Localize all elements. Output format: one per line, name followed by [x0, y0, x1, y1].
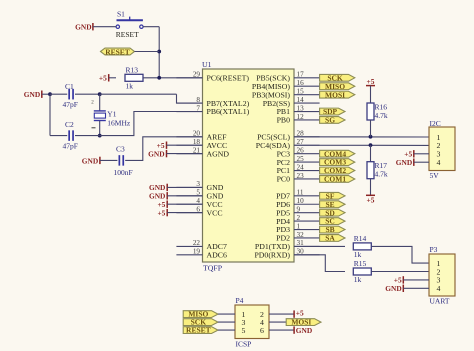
wire GND to C1 node [42, 93, 50, 95]
svg-text:47pF: 47pF [63, 142, 78, 151]
wire R17 to +5 bar [370, 179, 372, 196]
wire R15 to P3 pin 2 [371, 271, 429, 273]
U1 pin 11 PD7 [294, 195, 320, 197]
svg-text:ADC6: ADC6 [207, 251, 227, 260]
wire P4 pin 6 to GND [269, 329, 294, 331]
capacitor C3 100nF [118, 155, 120, 166]
resistor R13 1k [125, 74, 143, 81]
wire crystal bottom lead [99, 121, 101, 136]
power port +5 below R17 [366, 194, 375, 196]
svg-text:47pF: 47pF [63, 100, 78, 109]
svg-text:25: 25 [297, 155, 305, 163]
wire +5 to chip [167, 203, 202, 205]
U1 pin 21 AGND [176, 153, 202, 155]
svg-text:14: 14 [297, 96, 305, 104]
wire +5 to R13 [109, 77, 116, 79]
wire jog down to pin 8 [177, 94, 203, 103]
svg-text:4.7k: 4.7k [375, 170, 388, 179]
connector P4 header [235, 305, 269, 339]
svg-text:13: 13 [297, 104, 305, 112]
U1 pin 31 PD1(TXD) [294, 245, 320, 247]
svg-text:PD0(RXD): PD0(RXD) [254, 251, 290, 260]
svg-text:16MHz: 16MHz [107, 119, 131, 128]
wire SDA pin 27 to I2C pin 2 [294, 144, 429, 146]
U1 pin 16 PB4(MISO) [294, 85, 320, 87]
port COM4 [320, 150, 355, 157]
svg-text:U1: U1 [202, 60, 212, 69]
IC U1 ATmega8 TQFP body [203, 69, 295, 262]
wire RESET to P4 pin 5 [218, 329, 235, 331]
port SA [320, 235, 345, 242]
resistor R17 4.7k [367, 162, 374, 179]
wire C2 row left [50, 135, 67, 137]
wire R14 to P3 pin 1 [371, 246, 429, 263]
U1 pin 18 AVCC [176, 144, 202, 146]
svg-text:P3: P3 [430, 245, 438, 254]
svg-text:GND: GND [396, 158, 412, 167]
U1 pin 13 PB1 [294, 111, 320, 113]
svg-text:+5: +5 [99, 74, 107, 83]
U1 pin 19 ADC6 [176, 254, 202, 256]
svg-text:1k: 1k [354, 275, 362, 284]
power port +5 at P4 pin 2 [293, 310, 295, 317]
svg-text:16: 16 [297, 79, 305, 87]
wire crystal bottom to XTAL1 jog [100, 112, 203, 136]
U1 pin 20 AREF [176, 136, 202, 138]
svg-text:GND: GND [385, 284, 401, 293]
svg-text:4: 4 [437, 158, 441, 167]
U1 pin 24 PC1 [294, 170, 320, 172]
svg-text:15: 15 [297, 87, 305, 95]
svg-text:VCC: VCC [207, 208, 223, 217]
svg-text:ICSP: ICSP [236, 340, 252, 349]
U1 pin 28 PC5(SCL) [294, 136, 320, 138]
port COM1 [320, 176, 355, 183]
U1 pin 22 ADC7 [176, 245, 202, 247]
wire C1 node down to C2 row [49, 94, 51, 135]
port SD [320, 209, 345, 216]
svg-text:5V: 5V [430, 171, 440, 180]
wire to C1 [50, 93, 67, 95]
U1 pin 4 VCC [176, 203, 202, 205]
svg-text:1k: 1k [354, 250, 362, 259]
wire +5 to I2C pin 3 [414, 153, 429, 155]
crystal pin mark 1 [92, 127, 96, 129]
wire crystal top lead [99, 94, 101, 110]
port RESET at P4 [183, 327, 218, 334]
wire S1 to reset net [143, 26, 159, 28]
wire +5 to AVCC pin 18 [167, 144, 203, 146]
svg-text:4.7k: 4.7k [375, 111, 388, 120]
svg-text:GND: GND [82, 157, 98, 166]
svg-text:C3: C3 [116, 145, 125, 154]
junction R17/SDA [369, 143, 373, 147]
U1 pin 9 PD5 [294, 212, 320, 214]
svg-text:100nF: 100nF [114, 168, 133, 177]
U1 pin 17 PB5(SCK) [294, 77, 320, 79]
svg-text:+5: +5 [367, 196, 375, 205]
wire C3 to AREF [125, 137, 202, 161]
wire GND to AGND pin 21 [167, 153, 203, 155]
junction R16/SCL [369, 135, 373, 139]
svg-text:PB6(XTAL1): PB6(XTAL1) [207, 107, 250, 116]
junction at RESET port tap [157, 50, 161, 54]
U1 pin 15 PB3(MOSI) [294, 94, 320, 96]
wire RESET port to net [135, 51, 160, 53]
port SF [320, 192, 345, 199]
svg-text:R13: R13 [126, 66, 139, 75]
svg-text:9: 9 [297, 205, 301, 213]
wire P4 pin 2 to +5 [269, 313, 294, 315]
svg-text:PC6(RESET): PC6(RESET) [207, 74, 250, 83]
port SG [320, 117, 345, 124]
svg-text:12: 12 [297, 113, 305, 121]
svg-text:19: 19 [193, 248, 201, 256]
svg-text:1k: 1k [126, 82, 134, 91]
junction R13 net / reset net [157, 76, 161, 80]
wire GND to chip [167, 195, 202, 197]
svg-text:PB0: PB0 [277, 116, 291, 125]
svg-text:SA: SA [325, 234, 335, 243]
svg-text:+5: +5 [367, 77, 375, 86]
svg-text:SG: SG [325, 116, 335, 125]
junction crystal top [98, 92, 102, 96]
port MISO at P4 [183, 311, 218, 318]
U1 pin 12 PB0 [294, 119, 320, 121]
svg-text:R15: R15 [354, 259, 367, 268]
svg-text:24: 24 [297, 163, 305, 171]
wire C2 to crystal bottom [75, 135, 100, 137]
svg-text:GND: GND [24, 90, 40, 99]
wire pin 31 to R14 [294, 245, 345, 247]
svg-text:I2C: I2C [430, 119, 441, 128]
U1 pin 5 GND [176, 195, 202, 197]
wire +5 to R16 [370, 86, 372, 103]
U1 pin 3 GND [176, 186, 202, 188]
svg-text:Y1: Y1 [107, 109, 116, 118]
port SB [320, 226, 345, 233]
svg-text:5: 5 [242, 326, 246, 335]
wire SCL pin 28 to I2C pin 1 [294, 136, 429, 138]
connector I2C header [429, 127, 455, 171]
resistor R14 1k [353, 243, 371, 250]
crystal Y1 16MHz [94, 110, 106, 112]
wire R16 to SCL net [370, 120, 372, 137]
wire P4 pin 4 to MOSI [269, 321, 286, 323]
U1 pin 14 PB2(SS) [294, 102, 320, 104]
junction GND node [48, 92, 52, 96]
resistor R16 4.7k [367, 103, 374, 120]
wire GND to S1 [93, 26, 116, 28]
svg-text:11: 11 [297, 189, 304, 197]
pushbutton switch S1 [117, 19, 143, 21]
U1 pin 30 PD0(RXD) [294, 254, 320, 256]
svg-text:22: 22 [193, 239, 201, 247]
wire C1 to crystal-top node [75, 93, 100, 95]
power port GND at P4 pin 6 [293, 326, 295, 333]
junction crystal bottom [98, 134, 102, 138]
port COM3 [320, 159, 355, 166]
wire pin 30 down [294, 255, 345, 272]
wire GND to I2C pin 4 [414, 161, 429, 163]
svg-text:MOSI: MOSI [325, 90, 345, 99]
svg-text:+5: +5 [296, 308, 304, 317]
svg-text:TQFP: TQFP [203, 264, 223, 273]
U1 pin 8 PB7(XTAL2) [176, 102, 202, 104]
svg-text:S1: S1 [117, 9, 125, 18]
svg-text:RESET: RESET [186, 326, 211, 335]
svg-text:2: 2 [297, 214, 301, 222]
svg-text:P4: P4 [236, 296, 244, 305]
svg-text:+5: +5 [157, 208, 165, 217]
port SCK at P4 [183, 319, 218, 326]
U1 pin 32 PD2 [294, 237, 320, 239]
U1 pin 6 VCC [176, 212, 202, 214]
svg-text:RESET: RESET [116, 30, 139, 39]
port SCK [320, 74, 355, 81]
svg-text:23: 23 [297, 172, 305, 180]
svg-text:RESET: RESET [105, 47, 130, 56]
svg-text:AGND: AGND [207, 149, 230, 158]
svg-text:4: 4 [437, 284, 441, 293]
wire R13 to pin 29 [143, 77, 203, 79]
port MOSI [320, 91, 355, 98]
wire GND to C3 [100, 159, 118, 161]
svg-text:26: 26 [297, 146, 305, 154]
port MISO [320, 83, 355, 90]
svg-text:GND: GND [75, 22, 91, 31]
U1 pin 7 PB6(XTAL1) [176, 111, 202, 113]
port SE [320, 201, 345, 208]
svg-text:COM1: COM1 [324, 175, 346, 184]
svg-text:C2: C2 [65, 120, 74, 129]
wire reset net vertical [158, 27, 160, 78]
U1 pin 29 PC6(RESET) [176, 77, 202, 79]
U1 pin 26 PC3 [294, 153, 320, 155]
port SDP [320, 108, 345, 115]
U1 pin 23 PC0 [294, 178, 320, 180]
svg-text:6: 6 [260, 326, 264, 335]
U1 pin 27 PC4(SDA) [294, 144, 320, 146]
U1 pin 25 PC2 [294, 161, 320, 163]
wire +5 to P3 pin 3 [403, 279, 429, 281]
svg-text:UART: UART [430, 297, 450, 306]
svg-text:32: 32 [297, 231, 305, 239]
wire SCK to P4 pin 3 [218, 321, 235, 323]
port SC [320, 218, 345, 225]
wire GND to chip [167, 186, 202, 188]
wire crystal top node to XTAL2 jog [100, 93, 177, 95]
svg-text:17: 17 [297, 71, 305, 79]
capacitor C2 47pF [68, 130, 70, 141]
U1 pin 1 PD3 [294, 229, 320, 231]
svg-text:R14: R14 [354, 234, 367, 243]
svg-text:GND: GND [148, 149, 164, 158]
svg-text:PC0: PC0 [277, 175, 291, 184]
capacitor C1 47pF [68, 89, 70, 100]
svg-text:1: 1 [297, 222, 301, 230]
U1 pin 2 PD4 [294, 220, 320, 222]
resistor R15 1k [353, 268, 371, 275]
wire MISO to P4 pin 1 [218, 313, 235, 315]
connector P3 header [429, 254, 455, 296]
wire SDA net to R17 [370, 145, 372, 162]
port RESET (bidirectional) [101, 48, 135, 55]
svg-text:10: 10 [297, 197, 305, 205]
wire GND to P3 pin 4 [403, 287, 429, 289]
wire +5 to chip [167, 212, 202, 214]
svg-text:C1: C1 [65, 82, 74, 91]
port MOSI at P4 right [286, 319, 321, 326]
U1 pin 10 PD6 [294, 203, 320, 205]
svg-text:GND: GND [296, 326, 312, 335]
port COM2 [320, 167, 355, 174]
